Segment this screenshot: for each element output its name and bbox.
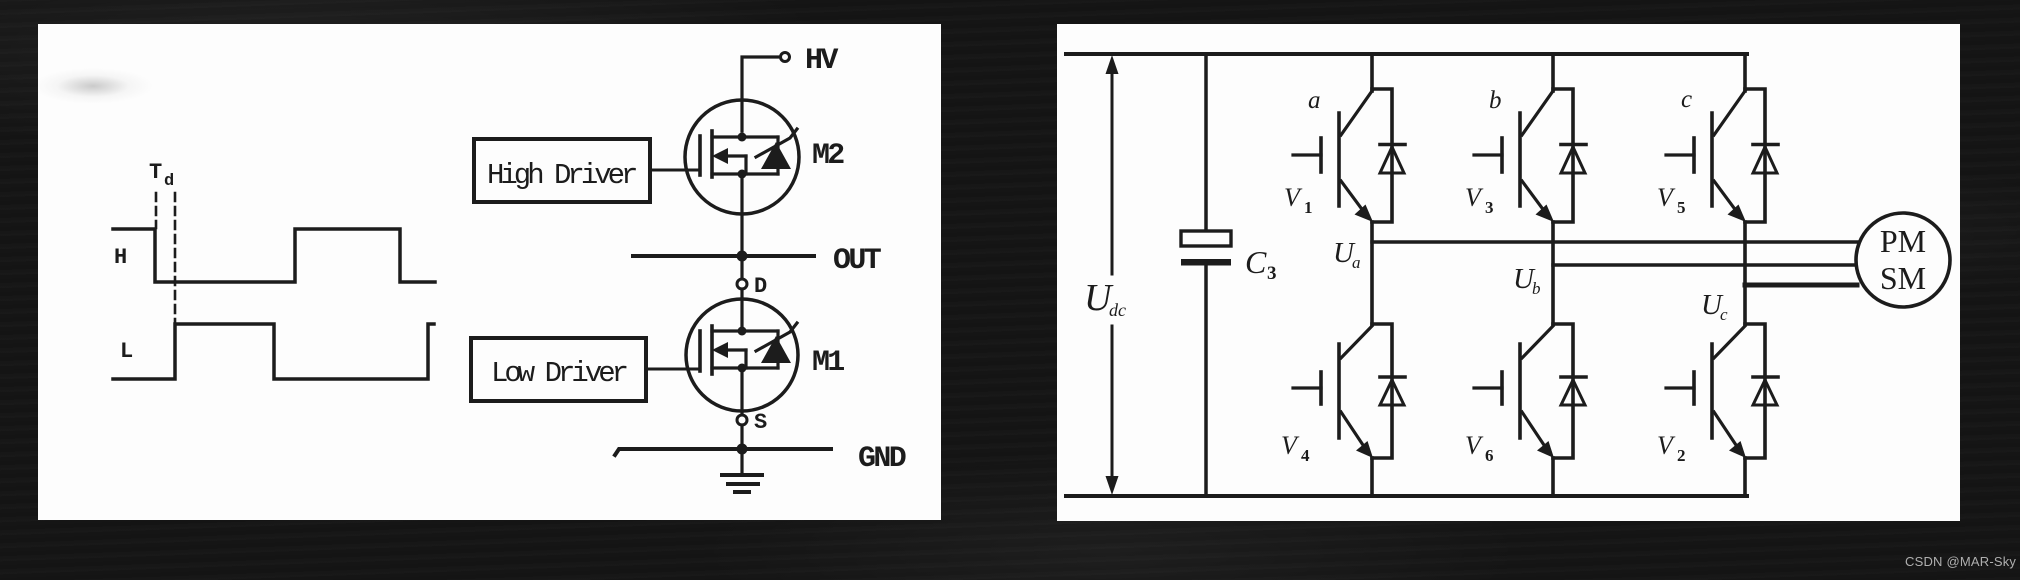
diode D-V4 cathode bar <box>1380 375 1405 379</box>
diode D-V4 triangle <box>1380 380 1404 405</box>
svg-text:HV: HV <box>805 44 838 78</box>
svg-text:OUT: OUT <box>833 244 882 278</box>
svg-text:Low Driver: Low Driver <box>491 357 627 390</box>
svg-text:3: 3 <box>1485 198 1494 217</box>
svg-text:L: L <box>120 339 133 364</box>
svg-text:C: C <box>1245 244 1267 280</box>
IGBT V3 body bar <box>1518 113 1522 206</box>
mosfet M2 body circle <box>685 100 799 214</box>
IGBT V4 collector/diode corner <box>1372 324 1392 458</box>
OUT rail <box>633 254 814 258</box>
svg-text:V: V <box>1657 431 1676 460</box>
IGBT V2 body bar <box>1710 344 1714 438</box>
diode D-V3 cathode bar <box>1561 143 1586 147</box>
IGBT V4 gate bar <box>1319 372 1323 404</box>
IGBT V5 collector/diode corner <box>1745 89 1765 222</box>
wire high driver to M2 gate <box>650 169 700 172</box>
svg-text:V: V <box>1465 183 1484 212</box>
mosfet M1 body diode triangle <box>761 336 791 363</box>
diode D-V6 cathode bar <box>1561 375 1586 379</box>
motor PMSM circle <box>1856 213 1950 307</box>
IGBT V2 gate lead <box>1666 386 1694 389</box>
wire M2 drain to HV <box>742 57 780 131</box>
IGBT V4 emitter diagonal with arrow <box>1341 412 1363 445</box>
svg-text:V: V <box>1281 431 1300 460</box>
svg-text:4: 4 <box>1301 446 1310 465</box>
mosfet M2 source lead <box>712 172 778 175</box>
IGBT V5 emitter diagonal with arrow <box>1714 181 1737 212</box>
ground symbol <box>722 473 762 477</box>
IGBT V3 collector/diode corner <box>1553 89 1573 222</box>
svg-text:6: 6 <box>1485 446 1494 465</box>
mosfet M1 body diode branch <box>776 331 779 368</box>
wire leg c top <box>1743 54 1747 91</box>
svg-text:D: D <box>754 274 767 299</box>
IGBT V6 collector diagonal <box>1522 326 1553 358</box>
svg-text:H: H <box>114 245 127 270</box>
wire leg b top <box>1551 54 1555 91</box>
IGBT V5 gate lead <box>1666 153 1694 156</box>
wire leg c middle <box>1743 222 1747 324</box>
IGBT V6 gate lead <box>1474 386 1502 389</box>
wire leg b bottom <box>1551 458 1555 496</box>
IGBT V4 gate lead <box>1293 386 1321 389</box>
svg-text:c: c <box>1720 305 1728 324</box>
svg-text:dc: dc <box>1109 300 1126 320</box>
right panel: three-phase inverter driving PMSM <box>1057 24 1960 521</box>
watermark <box>1905 554 2016 569</box>
terminal D circle <box>737 279 747 289</box>
diode D-V5 cathode bar <box>1753 143 1778 147</box>
IGBT V6 emitter diagonal with arrow <box>1522 412 1544 445</box>
DC bus negative rail <box>1066 494 1747 498</box>
mosfet M1 gate bar <box>698 331 702 371</box>
IGBT V1 body bar <box>1337 113 1341 206</box>
svg-text:2: 2 <box>1677 446 1686 465</box>
wire leg c bottom <box>1743 458 1747 496</box>
svg-text:M1: M1 <box>812 346 844 380</box>
IGBT V3 gate lead <box>1474 153 1502 156</box>
IGBT V1 collector/diode corner <box>1372 89 1392 222</box>
dead-time dashed line 1 <box>155 193 158 228</box>
phase b output line <box>1553 263 1857 266</box>
terminal HV circle <box>781 53 790 62</box>
mosfet M2 body arrow <box>724 154 746 157</box>
mosfet M1 body circle <box>686 299 798 411</box>
svg-text:PM: PM <box>1880 223 1926 259</box>
capacitor C3 branch wire bottom <box>1204 265 1208 496</box>
waveform H trace <box>113 229 435 282</box>
mosfet M2 source junction dot <box>738 170 747 179</box>
IGBT V4 body bar <box>1337 344 1341 438</box>
diode D-V6 triangle <box>1561 380 1585 405</box>
svg-text:1: 1 <box>1304 198 1313 217</box>
svg-text:GND: GND <box>858 442 906 476</box>
terminal S circle <box>737 415 747 425</box>
IGBT V1 emitter diagonal with arrow <box>1341 181 1364 212</box>
wire low driver to M1 gate <box>646 368 700 371</box>
svg-text:V: V <box>1465 431 1484 460</box>
mosfet M2 gate bar <box>698 136 702 175</box>
DC bus positive rail <box>1066 52 1747 56</box>
IGBT V6 body bar <box>1518 344 1522 438</box>
svg-text:d: d <box>164 172 174 191</box>
IGBT V6 gate bar <box>1500 372 1504 404</box>
mosfet M1 drain lead <box>712 329 778 332</box>
svg-text:b: b <box>1489 87 1502 114</box>
IGBT V5 body bar <box>1710 113 1714 206</box>
capacitor C3 bottom plate <box>1181 259 1231 266</box>
IGBT V3 emitter diagonal with arrow <box>1522 181 1545 212</box>
svg-text:V: V <box>1284 183 1303 212</box>
mosfet M2 channel bar <box>710 131 714 177</box>
diode D-V2 triangle <box>1753 380 1777 405</box>
svg-text:SM: SM <box>1880 260 1926 296</box>
mosfet M1 diode cathode slant <box>756 323 797 351</box>
svg-text:b: b <box>1532 279 1541 298</box>
IGBT V2 collector diagonal <box>1714 326 1745 358</box>
Low Driver block U-low <box>471 338 646 401</box>
GND junction dot <box>737 444 748 455</box>
wire leg b middle <box>1551 222 1555 324</box>
IGBT V3 gate bar <box>1500 138 1504 172</box>
diode D-V3 triangle <box>1561 147 1585 173</box>
svg-text:V: V <box>1657 183 1676 212</box>
capacitor C3 top plate <box>1181 231 1231 246</box>
left panel: half-bridge gate driver figure <box>38 24 941 520</box>
phase c output line <box>1745 283 1857 288</box>
svg-text:High Driver: High Driver <box>487 159 636 192</box>
IGBT V3 collector diagonal <box>1522 91 1553 135</box>
IGBT V5 collector diagonal <box>1714 91 1745 135</box>
IGBT V2 gate bar <box>1692 372 1696 404</box>
OUT junction dot <box>737 251 748 262</box>
wire M2 source to OUT node <box>740 174 743 279</box>
IGBT V6 collector/diode corner <box>1553 324 1573 458</box>
wire D terminal to M1 drain <box>740 289 743 331</box>
wire leg a middle <box>1370 222 1374 324</box>
waveform L trace <box>113 324 434 379</box>
wire leg a top <box>1370 54 1374 91</box>
diode D-V2 cathode bar <box>1753 375 1778 379</box>
capacitor C3 branch wire top <box>1204 54 1208 231</box>
GND rail <box>615 449 831 455</box>
mosfet M1 source junction dot <box>738 364 747 373</box>
IGBT V5 gate bar <box>1692 138 1696 172</box>
svg-text:5: 5 <box>1677 198 1686 217</box>
IGBT V2 collector/diode corner <box>1745 324 1765 458</box>
IGBT V2 emitter diagonal with arrow <box>1714 412 1736 445</box>
IGBT V4 collector diagonal <box>1341 326 1372 358</box>
svg-text:M2: M2 <box>812 139 844 173</box>
mosfet M1 body arrow <box>724 348 746 351</box>
svg-text:3: 3 <box>1267 263 1277 284</box>
High Driver block U-high <box>474 139 650 202</box>
IGBT V1 gate lead <box>1293 153 1321 156</box>
wire leg a bottom <box>1370 458 1374 496</box>
IGBT V1 collector diagonal <box>1341 91 1372 135</box>
svg-text:a: a <box>1352 253 1361 272</box>
diode D-V5 triangle <box>1753 147 1777 173</box>
mosfet M2 body diode branch <box>776 137 779 174</box>
svg-text:a: a <box>1308 87 1321 114</box>
svg-text:c: c <box>1681 86 1692 113</box>
mosfet M2 body diode triangle <box>761 142 791 169</box>
mosfet M2 diode cathode slant <box>756 129 797 157</box>
svg-text:T: T <box>149 160 162 185</box>
mosfet M1 source lead <box>712 366 778 369</box>
Udc measuring arrow <box>1111 68 1114 274</box>
wire S to GND rail <box>740 425 743 475</box>
svg-text:S: S <box>754 410 767 435</box>
wire M1 source to S terminal <box>740 368 743 415</box>
dead-time dashed line 2 <box>174 193 177 323</box>
diode D-V1 triangle <box>1380 147 1404 173</box>
mosfet M1 channel bar <box>710 326 714 374</box>
mosfet M1 drain junction dot <box>738 327 747 336</box>
diode D-V1 cathode bar <box>1380 143 1405 147</box>
mosfet M2 drain lead <box>712 135 778 138</box>
mosfet M2 drain junction dot <box>738 133 747 142</box>
phase a output line <box>1372 240 1857 243</box>
IGBT V1 gate bar <box>1319 138 1323 172</box>
